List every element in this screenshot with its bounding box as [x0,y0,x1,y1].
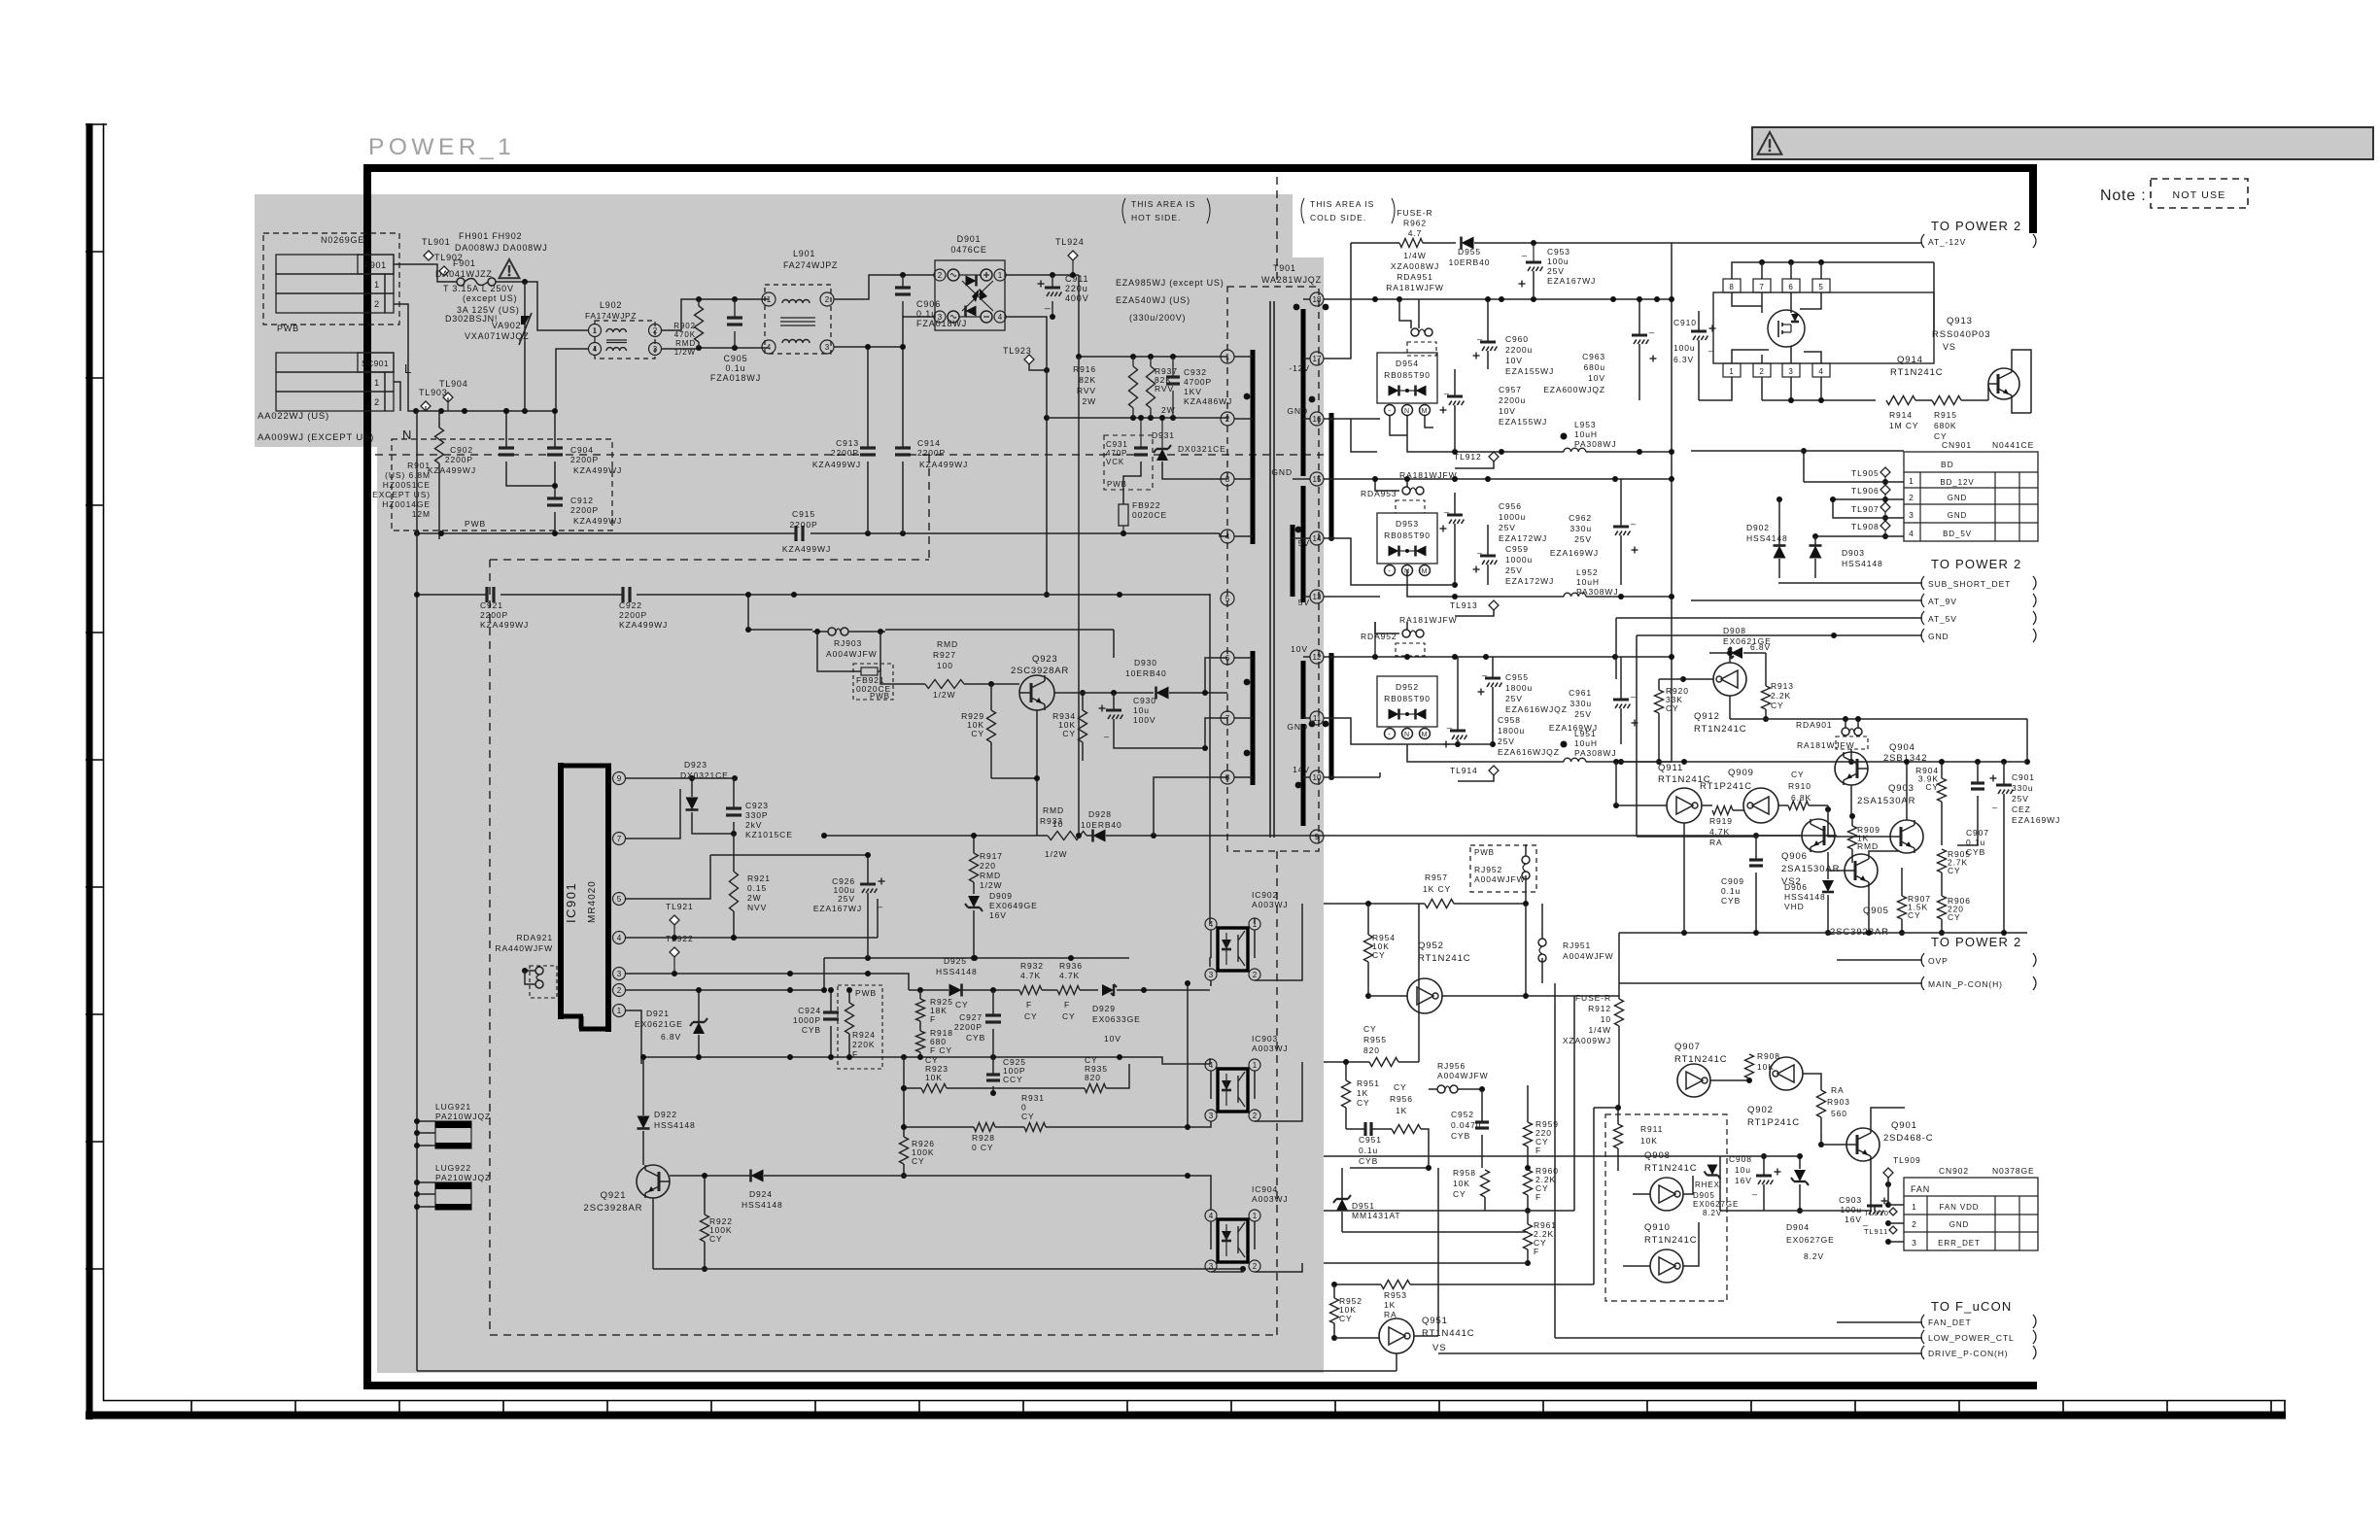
test points TL905-908 [1851,467,1904,539]
svg-text:R962: R962 [1403,219,1427,228]
jumper RDA901 [1796,719,1868,765]
capacitor C909 [1721,837,1763,933]
capacitor C960 [1473,296,1555,376]
svg-text:17: 17 [1313,355,1322,363]
opto Q951 [1334,1316,1475,1353]
filter L901 [762,249,838,354]
svg-text:Q904: Q904 [1889,742,1915,753]
resistor R960 [1524,1166,1559,1214]
svg-text:4: 4 [1225,532,1230,541]
svg-text:7: 7 [617,835,622,843]
svg-text:RT1P241C: RT1P241C [1700,781,1752,792]
svg-text:25V: 25V [1574,709,1592,719]
svg-text:1: 1 [1729,367,1734,376]
svg-text:5: 5 [1225,595,1230,603]
svg-text:CYB: CYB [1451,1131,1470,1141]
wire 10v rail pin12 [1324,622,1672,660]
wire L902 to L901 bottom [662,331,769,351]
diode D928 [1081,809,1324,842]
svg-text:VA902: VA902 [492,321,521,330]
capacitor C961 [1549,657,1638,744]
transformer T901 secondary windings [1293,299,1315,826]
svg-text:25V: 25V [838,894,855,904]
wire q913 pins top [1732,259,1934,330]
fuse F901 [435,258,496,286]
svg-text:RVV: RVV [1077,386,1096,395]
wire bridge minus rail [1005,301,1227,598]
svg-text:2: 2 [1759,367,1764,376]
svg-text:MAIN_P-CON(H): MAIN_P-CON(H) [1928,979,2003,989]
svg-text:CY: CY [1024,1011,1038,1021]
opto Q912 [1659,650,1747,735]
svg-text:_: _ [1446,719,1453,729]
svg-text:M: M [1422,568,1429,575]
svg-text:1: 1 [1909,476,1914,486]
svg-text:10V: 10V [1505,356,1523,365]
svg-text:CN901: CN901 [1942,440,1972,450]
svg-text:0.1u: 0.1u [1359,1146,1378,1155]
svg-text:820: 820 [1363,1045,1380,1055]
zener D909 [965,891,1038,961]
svg-text:82K: 82K [1079,375,1096,385]
svg-text:_: _ [877,898,883,907]
svg-text:TL909: TL909 [1893,1155,1921,1165]
jumper RDA953 [1361,479,1425,513]
diode D924 [670,1170,904,1211]
svg-text:470K: 470K [674,330,696,339]
svg-text:C902: C902 [450,445,473,455]
svg-text:Q923: Q923 [1032,654,1057,665]
svg-text:RT1N241C: RT1N241C [1694,724,1747,735]
connector SC901 [276,353,394,411]
capacitor C932 [1166,357,1232,418]
resistor R907 [1898,868,1931,936]
svg-text:1: 1 [1912,1202,1917,1212]
pwb dashed boundary [375,455,1324,1335]
resistor R909 [1848,813,1880,863]
to f_ucon wires [1438,1322,1922,1353]
resistor R954 [1364,904,1396,999]
svg-text:10V: 10V [1499,406,1516,416]
svg-text:EZA167WJ: EZA167WJ [813,904,862,913]
zener D908 [1709,626,1772,659]
svg-text:C959: C959 [1505,544,1529,554]
svg-text:10u: 10u [1735,1165,1751,1175]
svg-text:C903: C903 [1839,1195,1862,1205]
svg-text:2: 2 [825,295,830,304]
svg-text:RDA921: RDA921 [516,933,553,942]
resistor R927 [880,639,1019,700]
wire pin3 [625,971,909,990]
svg-text:LUG921: LUG921 [435,1102,471,1112]
svg-text:2: 2 [374,397,380,407]
svg-text:L953: L953 [1574,420,1597,429]
svg-text:400V: 400V [1065,293,1089,303]
svg-text:GND: GND [1287,722,1308,732]
transformer T901 labels [1261,263,1322,285]
svg-text:CY: CY [1394,1082,1407,1092]
svg-text:Q911: Q911 [1658,763,1683,773]
svg-text:9: 9 [617,774,622,783]
svg-text:220u: 220u [1065,284,1088,293]
svg-text:-12V: -12V [1289,363,1310,373]
svg-text:10: 10 [1313,773,1322,782]
test point TL901 [422,237,451,260]
mosfet IC Q913 box [1713,279,1934,377]
schematic sheet border [363,164,2037,1389]
svg-text:2kV: 2kV [745,820,762,830]
svg-text:330u: 330u [2012,783,2034,793]
opto Q902 [1747,1057,1821,1128]
svg-text:DRIVE_P-CON(H): DRIVE_P-CON(H) [1928,1349,2009,1358]
svg-text:TL907: TL907 [1851,504,1880,514]
svg-text:TL924: TL924 [1055,237,1085,247]
svg-text:2200u: 2200u [1499,395,1526,405]
resistor R917 [970,833,1003,894]
capacitor C903 [1839,1195,1887,1226]
svg-text:A004WJFW: A004WJFW [1474,874,1526,884]
svg-text:C952: C952 [1451,1110,1474,1119]
resistor R914 [1886,396,1918,431]
svg-text:2200P: 2200P [789,520,817,530]
svg-text:2: 2 [1912,1219,1917,1229]
wire 5v pin13 pin14 [1324,538,1455,597]
IC901 labels [564,880,598,923]
svg-text:C927: C927 [959,1012,983,1022]
wire d954 down [1390,416,1564,455]
opto Q911 [1613,762,1712,823]
svg-text:EZA169WJ: EZA169WJ [1550,548,1599,558]
svg-text:0476CE: 0476CE [950,245,986,255]
svg-text:R932: R932 [1020,961,1044,971]
svg-text:RT1N441C: RT1N441C [1422,1328,1475,1339]
pwb capacitor box C902 C904 C912 [392,439,612,530]
resistor R918 [916,1021,953,1060]
svg-text:2SA1530AR: 2SA1530AR [1781,864,1840,874]
svg-text:D928: D928 [1088,809,1112,819]
svg-text:2200P: 2200P [570,505,599,515]
svg-text:CYB: CYB [1721,896,1741,906]
svg-text:R936: R936 [1059,961,1083,971]
svg-text:C921: C921 [480,600,503,610]
zener D951 [1333,1165,1431,1232]
capacitor C927 [954,990,1001,1057]
svg-text:L902: L902 [600,300,622,310]
svg-text:R931: R931 [1021,1093,1045,1103]
svg-text:_: _ [1044,299,1051,310]
svg-text:R911: R911 [1640,1124,1663,1134]
svg-text:RJ951: RJ951 [1563,941,1591,950]
svg-text:EZA540WJ (US): EZA540WJ (US) [1116,295,1190,305]
svg-text:3: 3 [1209,1112,1214,1120]
svg-text:EX0627GE: EX0627GE [1786,1235,1835,1245]
svg-text:10ERB40: 10ERB40 [1125,668,1167,678]
left long wire down [416,411,418,1371]
svg-text:4.7: 4.7 [1408,228,1423,238]
page frame left ruler [86,123,107,1420]
svg-text:CY: CY [1771,701,1784,710]
svg-text:Q914: Q914 [1897,355,1923,365]
label FH901 FH902 [455,231,548,253]
fuse FB921 [853,664,893,701]
transistor Q904 [1835,742,1927,785]
svg-text:CN902: CN902 [1939,1166,1969,1176]
svg-text:AA022WJ (US): AA022WJ (US) [258,411,329,422]
wire minus12 from pin17 [1324,243,1351,359]
svg-text:4: 4 [998,313,1003,322]
svg-text:18: 18 [1313,295,1322,304]
inductor L951 [1407,729,1672,765]
resistor R921 [730,834,771,941]
svg-text:KZA499WJ: KZA499WJ [619,620,668,630]
svg-text:10V: 10V [1291,644,1308,654]
svg-text:25V: 25V [1505,565,1523,575]
svg-text:1: 1 [998,271,1003,280]
wire r961 row [1324,1211,1574,1263]
svg-text:2.2K: 2.2K [1771,691,1791,701]
pwm ic IC901 outline [558,763,611,1032]
svg-text:6.3V: 6.3V [1673,355,1694,364]
svg-text:CY: CY [1062,729,1076,738]
svg-text:XZA008WJ: XZA008WJ [1391,261,1439,271]
svg-text:R921: R921 [747,873,771,883]
varistor VA902 [465,313,532,345]
svg-text:OVP: OVP [1928,956,1949,966]
svg-text:D951: D951 [1352,1201,1375,1211]
svg-text:TL904: TL904 [439,379,468,389]
svg-text:D909: D909 [989,891,1013,901]
svg-text:R953: R953 [1384,1290,1407,1300]
svg-text:0020CE: 0020CE [1132,510,1167,520]
svg-text:EX0649GE: EX0649GE [989,901,1038,910]
svg-text:5V: 5V [1298,598,1310,607]
svg-text:Q952: Q952 [1418,941,1444,951]
label AA022WJ [258,411,329,422]
svg-text:N0441CE: N0441CE [1992,440,2034,450]
svg-text:TL910: TL910 [1864,1209,1889,1217]
svg-text:C912: C912 [570,496,594,505]
resistor R931 [995,1093,1046,1132]
svg-text:_: _ [1476,330,1483,340]
transistor Q923 [1011,654,1069,710]
svg-text:F CY: F CY [930,1045,952,1055]
resistor R952 [1330,1284,1362,1341]
svg-text:RA181WJFW: RA181WJFW [1399,615,1458,625]
jumper RJ951 [1538,904,1614,983]
svg-text:AT_9V: AT_9V [1928,597,1957,606]
svg-text:2200P: 2200P [831,448,859,458]
svg-text:Q910: Q910 [1644,1222,1671,1233]
svg-text:N: N [402,428,411,442]
resistor R910 [1788,770,1890,837]
test point TL903 [419,388,448,411]
svg-text:RB085T90: RB085T90 [1384,694,1431,703]
svg-text:AT_5V: AT_5V [1928,614,1957,624]
svg-text:PA210WJQZ: PA210WJQZ [435,1173,491,1182]
svg-text:KZA499WJ: KZA499WJ [782,544,831,554]
svg-text:1KV: 1KV [1184,387,1202,396]
wire bus y1411 [417,1353,1397,1371]
zener D904 [1786,1153,1835,1261]
svg-text:R957: R957 [1425,873,1448,882]
capacitor C923 [726,778,793,839]
svg-text:2: 2 [1225,415,1230,424]
svg-text:1800u: 1800u [1505,683,1533,693]
test point TL924 [1055,237,1085,275]
dashed box Q908 Q910 [1605,1114,1727,1301]
capacitor C925 [986,1057,1026,1096]
svg-text:5V: 5V [1298,538,1310,548]
svg-text:C957: C957 [1499,385,1522,394]
resistor R911 [1614,1108,1664,1171]
resistor R937 [1147,357,1178,418]
svg-text:R912: R912 [1588,1004,1611,1013]
IC901 pins [613,772,626,1017]
capacitor C951 [1346,1122,1392,1166]
svg-text:P901: P901 [363,260,386,270]
svg-text:R910: R910 [1788,781,1811,791]
svg-text:C905: C905 [723,354,747,363]
svg-text:RT1N241C: RT1N241C [1644,1235,1698,1246]
wire gnd cold bus [1324,835,1837,837]
svg-text:2SC3928AR: 2SC3928AR [1011,666,1069,676]
wire TL903 TL904 stubs [426,397,448,411]
svg-text:KZ1015CE: KZ1015CE [745,830,793,839]
svg-text:FAN_DET: FAN_DET [1928,1318,1972,1327]
svg-text:1M CY: 1M CY [1889,421,1918,430]
svg-text:HSS4148: HSS4148 [1746,533,1788,543]
test point TL923 [1003,346,1050,373]
svg-text:L901: L901 [793,249,815,258]
svg-text:TL905: TL905 [1851,468,1880,478]
svg-text:CY: CY [1062,1011,1076,1021]
svg-text:D955: D955 [1458,247,1481,257]
svg-text:_: _ [1630,515,1637,525]
svg-text:A003WJ: A003WJ [1252,900,1289,909]
resistor R903 [1817,1085,1850,1147]
svg-text:11: 11 [1313,714,1322,723]
fuse resistor R912 [1563,983,1624,1045]
svg-text:RA181WJFW: RA181WJFW [1386,283,1444,292]
svg-text:R902: R902 [673,322,696,330]
svg-text:D953: D953 [1396,519,1419,529]
wire pin8 link [1154,777,1227,836]
svg-text:-: - [1388,730,1392,738]
svg-text:_: _ [1630,688,1637,698]
capacitor C952 [1451,1089,1489,1168]
svg-text:WA281WJQZ: WA281WJQZ [1261,275,1322,285]
svg-text:9: 9 [1315,833,1320,841]
page frame bottom ruler [86,1400,2286,1416]
svg-text:2200P: 2200P [480,610,508,620]
svg-text:RA: RA [1709,838,1723,847]
svg-text:7: 7 [1225,714,1230,723]
svg-text:3: 3 [1225,475,1230,484]
rectifier D954 [1377,353,1437,416]
wire ic903 pins [1210,1059,1211,1127]
svg-text:10ERB40: 10ERB40 [1449,257,1491,267]
diode D930 [1125,658,1227,700]
svg-text:N: N [1404,408,1410,415]
resistor R961 [1524,1211,1557,1266]
wire pin4 [625,899,878,941]
svg-text:HSS4148: HSS4148 [742,1200,783,1210]
transistor Q905 [1828,851,1899,938]
svg-text:3: 3 [653,345,658,354]
svg-text:EZA155WJ: EZA155WJ [1505,366,1554,376]
svg-text:KZA499WJ: KZA499WJ [573,516,622,526]
svg-text:PA308WJ: PA308WJ [1574,748,1616,758]
svg-text:D930: D930 [1134,658,1157,667]
svg-text:14: 14 [1313,534,1322,543]
wire cold long verticals [1419,904,1618,1338]
wire C904 top feed [552,408,558,434]
wire q951 row [1324,1210,1485,1212]
opto IC903 [1205,1034,1289,1121]
capacitor C953 [1519,243,1597,296]
svg-text:(330u/200V): (330u/200V) [1129,313,1186,323]
svg-text:EX0633GE: EX0633GE [1092,1014,1141,1024]
svg-text:-: - [1388,406,1392,415]
capacitor C955 [1478,657,1568,744]
transformer T901 core [1270,301,1274,838]
transformer secondary pins [1310,292,1324,843]
fan table CN902 [1904,1166,2038,1250]
svg-text:THIS AREA IS: THIS AREA IS [1131,199,1195,209]
svg-text:2: 2 [1909,493,1914,502]
svg-text:_: _ [1443,385,1450,394]
svg-text:R919: R919 [1709,816,1733,826]
hot bus y845 [821,821,1048,838]
svg-text:_: _ [1648,324,1655,333]
svg-text:16V: 16V [989,910,1007,920]
test point TL921 [666,902,694,938]
svg-text:2W: 2W [1082,396,1096,406]
svg-text:220: 220 [980,861,996,871]
test point TL902 [434,253,464,276]
capacitor C901 [1990,762,2061,933]
svg-text:CYB: CYB [966,1033,985,1043]
svg-text:PWB: PWB [1107,480,1127,489]
wire q923 emitter [991,710,1040,821]
resistor R908 [1745,1051,1780,1078]
svg-text:MR4020: MR4020 [587,880,598,923]
svg-text:D954: D954 [1396,359,1419,368]
svg-text:RA: RA [1831,1085,1845,1095]
svg-text:XZA009WJ: XZA009WJ [1563,1036,1611,1045]
svg-text:10u: 10u [1133,705,1150,715]
svg-text:4: 4 [1909,529,1914,538]
opto Q907 [1674,1042,1752,1097]
svg-text:1K: 1K [1357,1088,1368,1098]
svg-text:2: 2 [374,299,380,309]
svg-text:330u: 330u [1569,524,1592,533]
svg-text:VXA071WJQZ: VXA071WJQZ [465,331,530,341]
svg-text:16V: 16V [1735,1176,1752,1185]
svg-text:1000u: 1000u [1505,555,1533,565]
capacitor C905 [710,318,761,383]
svg-text:RB085T90: RB085T90 [1384,370,1431,380]
svg-text:TL923: TL923 [1003,346,1032,356]
wire bus y1306 [653,1198,1246,1272]
svg-text:Q906: Q906 [1781,851,1808,862]
transformer rail labels [1271,363,1310,774]
svg-text:EZA169WJ: EZA169WJ [2012,815,2060,825]
svg-text:Q912: Q912 [1694,711,1720,722]
svg-text:2200P: 2200P [954,1022,983,1032]
svg-text:2W: 2W [747,893,762,903]
svg-text:AA009WJ (EXCEPT US): AA009WJ (EXCEPT US) [258,432,374,443]
